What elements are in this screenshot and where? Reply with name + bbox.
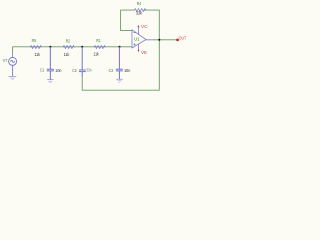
- wire op-amp output to OUT terminal: [154, 39, 177, 41]
- svg-text:VC: VC: [141, 24, 148, 29]
- capacitor C1: [47, 47, 54, 79]
- voltage source V7: [9, 57, 17, 76]
- svg-text:10n: 10n: [124, 68, 131, 73]
- OUT terminal: [176, 39, 178, 41]
- resistor R4: [135, 9, 146, 12]
- svg-text:C3: C3: [109, 68, 114, 73]
- op-amp plus mark (lower input): [134, 43, 136, 45]
- svg-text:C2: C2: [72, 68, 77, 73]
- ground (under C3): [117, 79, 123, 82]
- wire feedback: R4 right down to output junction: [144, 10, 159, 39]
- resistor R2: [63, 45, 74, 48]
- node output junction: [158, 39, 160, 41]
- node junction C2 tap: [81, 46, 83, 48]
- node junction C1 tap: [49, 46, 51, 48]
- V7 top pin: [12, 53, 14, 58]
- ground (under V7): [9, 76, 16, 79]
- op-amp minus mark (upper input): [134, 32, 136, 34]
- svg-text:R4: R4: [137, 1, 142, 6]
- node junction C3 tap: [118, 46, 120, 48]
- resistor R5: [30, 45, 41, 48]
- wire main horizontal from V7 to op-amp lower input: [13, 47, 132, 53]
- wire C2 bottom loop to output junction: [82, 40, 159, 90]
- op-amp output pin: [146, 39, 154, 41]
- svg-text:11k: 11k: [93, 51, 99, 56]
- resistor R1: [94, 45, 105, 48]
- svg-text:C1: C1: [40, 67, 45, 72]
- svg-text:R2: R2: [66, 38, 71, 43]
- VC power pin stub and arrow: [138, 27, 140, 34]
- capacitor C3: [116, 47, 122, 78]
- capacitor C2: [79, 47, 85, 76]
- svg-text:VE: VE: [141, 50, 147, 55]
- svg-text:11k: 11k: [35, 52, 41, 57]
- svg-text:33n: 33n: [86, 68, 92, 73]
- svg-text:U1: U1: [134, 37, 140, 42]
- svg-text:R5: R5: [32, 38, 37, 43]
- svg-text:V7: V7: [3, 58, 8, 63]
- svg-text:10n: 10n: [55, 68, 62, 73]
- svg-text:11k: 11k: [64, 52, 70, 57]
- VE power pin stub and arrow: [138, 44, 140, 50]
- svg-text:OUT: OUT: [179, 35, 187, 40]
- svg-text:R1: R1: [96, 38, 101, 43]
- svg-text:33k: 33k: [136, 11, 143, 16]
- wire feedback: inverting input up and over to R4 left: [121, 10, 135, 31]
- ground (under C1): [47, 80, 53, 83]
- op-amp U1 triangle: [132, 30, 146, 48]
